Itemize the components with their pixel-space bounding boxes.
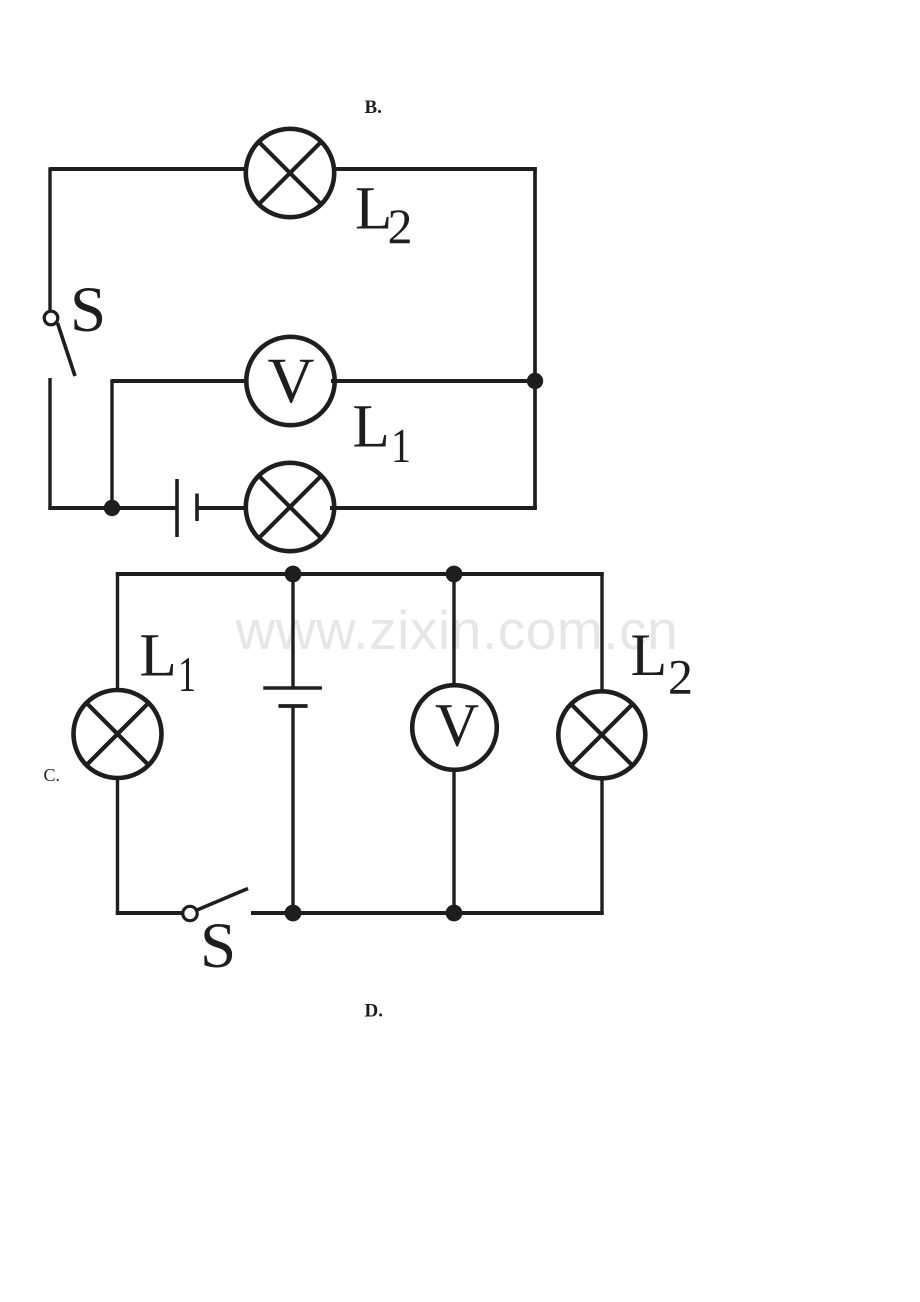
wire: C bottom horizontal right [251,911,604,915]
lamp L2 (C) cross [571,704,633,766]
wire: B left vertical upper [48,167,51,310]
svg-text:1: 1 [391,418,411,473]
wire: B bottom horizontal left [48,506,177,510]
wire: B top horizontal left [50,167,250,171]
wire: C battery branch lower vertical [291,706,294,913]
wire: C right vertical upper [600,572,603,692]
switch S (B) blade [58,323,76,376]
voltmeter U1 (B) circle [246,337,334,425]
switch S (C) blade [197,889,248,911]
battery (C) long plate [263,686,322,690]
wire: C right vertical lower [600,777,603,915]
svg-text:L: L [353,394,390,461]
wire: B voltmeter horizontal right [331,379,535,383]
lamp L2 (C) circle [558,691,645,778]
battery (B) long plate [175,479,179,537]
svg-text:B.: B. [365,97,382,118]
svg-text:L: L [631,622,668,688]
svg-text:S: S [200,910,236,982]
svg-text:2: 2 [388,198,413,254]
wire: B top horizontal right [330,167,537,171]
wire: C voltmeter branch lower vertical [452,769,455,913]
wire: C left vertical lower [116,776,119,915]
battery (C) short plate [278,704,307,708]
svg-text:1: 1 [178,646,196,702]
svg-text:2: 2 [668,648,693,704]
node: C bottom voltmeter junction dot [446,905,463,922]
svg-text:www.zixin.com.cn: www.zixin.com.cn [235,599,679,661]
node: C top battery junction dot [285,566,302,583]
wire: C bottom horizontal left [116,911,183,915]
lamp L1 (C) cross [86,703,148,765]
voltmeter U2 (C) circle [412,685,497,770]
svg-text:C.: C. [44,765,61,785]
lamp L1 (C) circle [74,690,162,778]
node: B right junction dot [527,373,543,389]
wire: C left vertical upper [116,572,119,692]
wire: C voltmeter branch upper vertical [452,574,455,686]
lamp L2 (B) circle [246,129,334,217]
wire: B voltmeter branch vertical [110,379,113,508]
wire: B voltmeter horizontal left [112,379,250,383]
svg-text:S: S [70,274,106,346]
wire: B right vertical [533,167,537,510]
node: C bottom battery junction dot [285,905,302,922]
svg-text:V: V [435,692,479,759]
switch S (B) pivot circle [44,311,58,325]
node: B bottom junction dot [104,500,120,516]
wire: B left vertical lower [48,378,51,510]
lamp L1 (B) circle [246,463,334,551]
wire: C battery branch upper vertical [291,574,294,688]
wire: B bottom horizontal right [330,506,537,510]
svg-text:L: L [140,622,177,689]
battery (B) short plate [195,494,199,522]
node: C top voltmeter junction dot [446,566,463,583]
wire: C top horizontal [116,572,604,576]
switch S (C) pivot circle [183,906,197,920]
wire: B bottom battery to lamp [197,506,250,510]
lamp L1 (B) cross [259,476,321,538]
svg-text:D.: D. [365,1000,383,1021]
lamp L2 (B) cross [259,142,321,204]
svg-text:V: V [268,345,315,417]
